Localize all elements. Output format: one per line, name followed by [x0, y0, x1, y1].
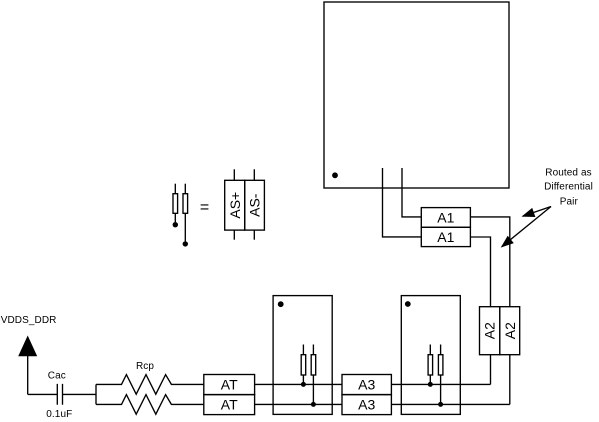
wire: upper A1 to right A2 (differential) — [470, 217, 509, 307]
wire: power stem — [27, 356, 29, 395]
legend box AS+ — [225, 180, 245, 230]
termination box A2 left — [480, 307, 500, 355]
legend AS box bottom pin left — [233, 230, 235, 240]
wire: capacitor to rails junction — [63, 393, 96, 395]
termination box A2 right — [500, 307, 520, 355]
junction dot box1 upper rail — [301, 382, 306, 387]
svg-text:Differential: Differential — [544, 181, 593, 192]
leader line 1 to upper differential wire — [523, 207, 551, 217]
svg-text:VDDS_DDR: VDDS_DDR — [1, 315, 57, 326]
IC body U1 — [324, 2, 509, 188]
component box 2 — [401, 296, 460, 415]
legend resistor symbol right — [184, 184, 186, 194]
wire: power to capacitor — [28, 393, 57, 395]
termination box A3 upper — [342, 375, 391, 395]
svg-text:A3: A3 — [358, 377, 375, 393]
legend resistor symbol left — [174, 184, 176, 194]
wire: A2 right bottom pin to lower rail — [509, 355, 511, 405]
svg-text:Routed as: Routed as — [545, 168, 592, 179]
arrowhead 2 — [501, 236, 514, 248]
svg-text:Rcp: Rcp — [136, 361, 154, 372]
svg-text:A1: A1 — [437, 209, 454, 225]
legend box AS- — [245, 180, 265, 230]
wire: upper rail AT to A3 — [255, 383, 342, 385]
pin-1 dot of U1 — [332, 172, 338, 178]
wire: U1 pin stub to upper A1 — [402, 168, 421, 217]
svg-text:AT: AT — [221, 397, 238, 413]
junction dot box2 upper rail — [428, 382, 433, 387]
svg-text:Cac: Cac — [48, 371, 66, 382]
termination box AT lower — [204, 395, 255, 415]
resistor Rcp upper zigzag — [96, 375, 204, 395]
svg-text:A2: A2 — [482, 322, 498, 339]
svg-text:A3: A3 — [358, 397, 375, 413]
power symbol VDDS_DDR — [18, 336, 37, 357]
wire: lower rail AT to A3 — [255, 403, 342, 405]
resistor in box 1 left — [302, 345, 304, 355]
legend AS box top pin left — [233, 169, 235, 180]
svg-text:=: = — [200, 199, 209, 216]
wire: U1 pin stub to lower A1 — [383, 168, 422, 237]
wire: lower A1 to left A2 (differential) — [470, 237, 490, 307]
capacitor Cac — [57, 384, 62, 405]
termination box A1 upper — [421, 208, 470, 228]
pin-1 dot of component box 1 — [278, 301, 284, 307]
termination box A1 lower — [421, 227, 470, 246]
resistor in box 1 right — [312, 345, 314, 355]
termination box A3 lower — [342, 395, 391, 415]
wire: A2 left bottom pin to upper rail — [490, 355, 492, 385]
svg-text:AS+: AS+ — [227, 192, 243, 219]
annotation text: Routed as Differential Pair — [544, 168, 593, 208]
termination box AT upper — [204, 375, 255, 395]
svg-text:AS-: AS- — [247, 193, 263, 217]
svg-text:AT: AT — [221, 377, 238, 393]
leader line 2 to lower differential wire — [502, 207, 551, 247]
wire: vertical connector between rails — [95, 384, 97, 404]
arrowhead 1 — [522, 208, 536, 217]
resistor in box 2 right — [440, 345, 442, 355]
wire: upper rail A3 to A2 — [391, 383, 490, 385]
legend AS box top pin right — [253, 169, 255, 180]
wire: lower rail A3 to A2 — [391, 403, 509, 405]
component box 1 — [273, 296, 332, 415]
svg-text:0.1uF: 0.1uF — [46, 409, 72, 420]
junction dot box1 lower rail — [311, 402, 316, 407]
resistor in box 2 left — [429, 345, 431, 355]
junction dot box2 lower rail — [438, 402, 443, 407]
svg-text:Pair: Pair — [560, 196, 579, 207]
resistor Rcp lower zigzag — [96, 395, 204, 415]
legend AS box bottom pin right — [253, 230, 255, 240]
svg-text:A2: A2 — [502, 322, 518, 339]
pin-1 dot of component box 2 — [405, 301, 411, 307]
svg-text:A1: A1 — [437, 229, 454, 245]
